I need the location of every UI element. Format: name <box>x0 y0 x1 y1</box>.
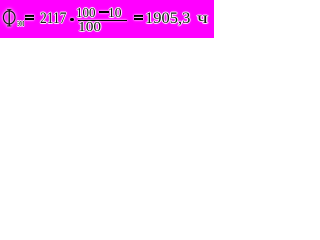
equals 1 bar top <box>25 15 34 17</box>
numerator 10 <box>108 7 122 21</box>
equals 2 bar top <box>134 15 143 17</box>
denominator 100 <box>78 21 101 35</box>
Phi symbol <box>1 8 18 28</box>
numerator 100 <box>76 7 96 21</box>
multiplication dot <box>70 18 74 21</box>
1905,3 <box>145 11 190 27</box>
2117 <box>40 11 66 27</box>
equals 1 bar bottom <box>25 18 34 20</box>
formula: Phi_em = 2117 * (100-10)/100 = 1905,3 ch <box>0 0 214 38</box>
subscript em <box>17 18 24 29</box>
numerator minus <box>99 11 109 12</box>
ch (hours) <box>197 11 208 27</box>
fraction bar <box>78 20 127 22</box>
equals 2 bar bottom <box>134 18 143 20</box>
